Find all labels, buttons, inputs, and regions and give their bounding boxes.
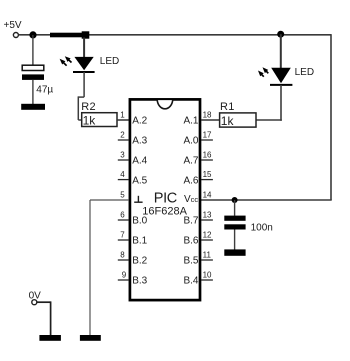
- junction dot pin14 / 100n: [232, 197, 238, 203]
- svg-text:A.3: A.3: [132, 135, 147, 146]
- pin 4 stub: [118, 179, 129, 181]
- svg-text:LED: LED: [100, 56, 119, 67]
- junction dot capacitor branch: [29, 31, 36, 38]
- pin 2 stub: [118, 139, 129, 141]
- svg-text:100n: 100n: [251, 222, 273, 233]
- pin 16 stub: [201, 159, 213, 161]
- wire LED1 anode: [83, 38, 85, 58]
- svg-text:A.6: A.6: [183, 175, 198, 186]
- svg-text:B.2: B.2: [132, 255, 147, 266]
- svg-text:PIC: PIC: [154, 190, 177, 206]
- svg-text:A.0: A.0: [183, 135, 198, 146]
- junction square LED1 anode: [82, 31, 90, 38]
- svg-text:A.2: A.2: [132, 115, 147, 126]
- pin 5 internal ground symbol: [134, 196, 142, 202]
- wire LED2 cathode to R1: [256, 85, 282, 121]
- svg-text:17: 17: [203, 131, 212, 140]
- wire 47u cap top lead: [32, 35, 34, 65]
- svg-text:R2: R2: [81, 101, 96, 113]
- wire 47u cap bottom lead: [32, 80, 34, 104]
- pin 6 stub: [118, 219, 129, 221]
- svg-text:11: 11: [203, 251, 212, 260]
- svg-text:1k: 1k: [83, 114, 97, 128]
- wire LED2 anode: [280, 34, 282, 68]
- wire 100n top lead: [234, 200, 236, 216]
- wire LED1 cathode to R2: [78, 72, 84, 120]
- svg-text:13: 13: [203, 211, 212, 220]
- wire 100n bottom lead: [234, 230, 236, 250]
- svg-text:7: 7: [120, 231, 125, 240]
- capacitor C2 100n: [224, 216, 245, 230]
- svg-text:B.7: B.7: [183, 215, 198, 226]
- svg-text:16F628A: 16F628A: [142, 205, 187, 217]
- wire pin 5 to ground: [90, 199, 129, 201]
- svg-text:5: 5: [120, 191, 125, 200]
- wire pin5 ground drop: [89, 200, 91, 335]
- svg-text:8: 8: [120, 251, 125, 260]
- capacitor C1 47u electrolytic: [22, 65, 44, 80]
- wire pin 18 to R1: [201, 119, 220, 121]
- ground bar under 100n: [224, 249, 245, 255]
- svg-text:9: 9: [122, 271, 127, 280]
- wire pin14 to right rail: [201, 199, 332, 201]
- svg-text:B.1: B.1: [132, 235, 147, 246]
- svg-text:3: 3: [120, 151, 125, 160]
- svg-text:B.0: B.0: [132, 215, 147, 226]
- pin 11 stub: [201, 259, 213, 261]
- pin 12 stub: [201, 239, 213, 241]
- pin 10 stub: [201, 279, 213, 281]
- wire 0V to ground: [37, 301, 51, 335]
- resistor R1: [220, 113, 256, 127]
- svg-text:18: 18: [203, 111, 212, 120]
- svg-text:47µ: 47µ: [36, 85, 53, 96]
- svg-text:1: 1: [120, 111, 125, 120]
- svg-text:12: 12: [203, 231, 212, 240]
- svg-text:6: 6: [120, 211, 125, 220]
- pin 9 stub: [118, 279, 129, 281]
- svg-text:4: 4: [120, 170, 125, 179]
- pin 15 stub: [201, 179, 213, 181]
- wire right rail: [330, 34, 332, 200]
- pin 17 stub: [201, 139, 213, 141]
- junction dot LED2 branch: [277, 31, 284, 38]
- ground bar under 47u: [21, 104, 45, 110]
- wire R2 to pin 1: [117, 119, 129, 121]
- ground bar pin5: [80, 335, 101, 341]
- svg-text:Vcc: Vcc: [184, 194, 198, 205]
- svg-text:A.1: A.1: [183, 115, 198, 126]
- svg-text:B.4: B.4: [183, 275, 198, 286]
- svg-text:16: 16: [203, 151, 212, 160]
- terminal +5V: [13, 33, 18, 38]
- resistor R2: [82, 113, 117, 127]
- svg-text:2: 2: [120, 131, 125, 140]
- IC notch: [157, 100, 173, 109]
- ground bar 0V: [39, 335, 61, 341]
- wire +5V top rail: [19, 34, 331, 36]
- terminal 0V: [32, 300, 37, 305]
- svg-text:1k: 1k: [221, 114, 235, 128]
- svg-text:A.4: A.4: [132, 155, 147, 166]
- pin 7 stub: [118, 239, 129, 241]
- LED D1: [60, 56, 95, 72]
- wire thick rail segment: [50, 33, 82, 38]
- svg-text:14: 14: [203, 191, 212, 200]
- svg-text:B.5: B.5: [183, 255, 198, 266]
- svg-text:LED: LED: [295, 67, 314, 78]
- svg-text:B.3: B.3: [132, 275, 147, 286]
- svg-text:15: 15: [203, 170, 212, 179]
- pin 3 stub: [118, 159, 129, 161]
- pin 13 stub: [201, 219, 213, 221]
- svg-text:+5V: +5V: [4, 20, 22, 31]
- pin 8 stub: [118, 259, 129, 261]
- LED D2: [258, 67, 292, 85]
- svg-text:A.7: A.7: [183, 155, 198, 166]
- svg-text:A.5: A.5: [132, 175, 147, 186]
- svg-text:R1: R1: [220, 101, 235, 113]
- op IC U1 body PIC16F628A: [130, 99, 200, 300]
- svg-text:10: 10: [203, 271, 212, 280]
- svg-text:B.6: B.6: [183, 235, 198, 246]
